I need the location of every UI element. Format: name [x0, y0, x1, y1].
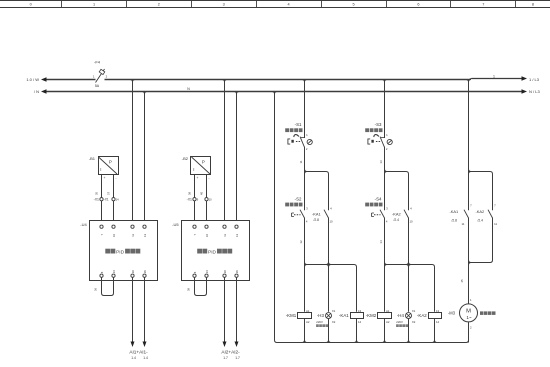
svg-text:24: 24 — [112, 270, 116, 273]
svg-text:-KA2: -KA2 — [476, 209, 485, 214]
svg-text:37: 37 — [107, 192, 111, 196]
svg-text:220V: 220V — [316, 320, 323, 324]
svg-text:A1: A1 — [306, 309, 310, 313]
svg-text:-B1: -B1 — [89, 156, 96, 161]
svg-text:1.0 / W: 1.0 / W — [26, 77, 39, 82]
svg-text:+: + — [197, 176, 199, 180]
svg-text:11: 11 — [131, 234, 135, 237]
svg-text:/2.8: /2.8 — [452, 218, 458, 222]
svg-text:-S1: -S1 — [295, 122, 302, 127]
svg-text:14: 14 — [436, 320, 440, 324]
svg-text:2: 2 — [158, 3, 160, 7]
svg-text:6: 6 — [417, 3, 419, 7]
svg-text:-H3: -H3 — [317, 313, 325, 318]
svg-text:P: P — [109, 160, 112, 165]
svg-text:A2: A2 — [306, 320, 310, 324]
svg-text:14: 14 — [358, 320, 362, 324]
svg-text:10: 10 — [112, 234, 116, 237]
svg-text:1.7: 1.7 — [223, 356, 228, 360]
svg-text:11: 11 — [494, 222, 497, 226]
svg-text:N / L3: N / L3 — [529, 89, 540, 94]
svg-text:1: 1 — [493, 74, 495, 78]
svg-text:-X1: -X1 — [104, 198, 109, 202]
svg-text:-KA1: -KA1 — [312, 212, 321, 217]
svg-text:8: 8 — [532, 3, 534, 7]
svg-text:-X1: -X1 — [94, 198, 99, 202]
svg-text:13: 13 — [358, 309, 362, 313]
svg-text:10: 10 — [410, 220, 414, 224]
svg-text:28: 28 — [223, 270, 227, 273]
svg-text:-: - — [116, 176, 117, 180]
svg-text:-F4: -F4 — [94, 60, 101, 65]
svg-text:/2.4: /2.4 — [478, 218, 484, 222]
svg-text:AI1+AI1-: AI1+AI1- — [129, 350, 148, 355]
svg-text:10: 10 — [330, 220, 334, 224]
svg-text:-KA2: -KA2 — [417, 313, 427, 318]
svg-text:38: 38 — [188, 192, 192, 196]
svg-text:24: 24 — [205, 270, 209, 273]
svg-text:26: 26 — [143, 270, 147, 273]
svg-text:28: 28 — [131, 270, 135, 273]
svg-text:-KA1: -KA1 — [339, 313, 349, 318]
svg-text:26: 26 — [235, 270, 239, 273]
svg-text:-H4: -H4 — [397, 313, 405, 318]
svg-text:P: P — [202, 160, 205, 165]
svg-text:-B2: -B2 — [182, 156, 189, 161]
svg-text:-S2: -S2 — [295, 196, 302, 201]
svg-text:X2: X2 — [332, 320, 336, 324]
svg-text:-KM1: -KM1 — [286, 313, 297, 318]
svg-text:-X1: -X1 — [187, 198, 192, 202]
svg-text:1: 1 — [93, 3, 95, 7]
svg-text:AI2+AI2-: AI2+AI2- — [221, 350, 240, 355]
svg-text:11: 11 — [462, 222, 465, 226]
svg-text:11: 11 — [299, 160, 303, 163]
svg-text:X1: X1 — [332, 309, 336, 313]
svg-text:-M3: -M3 — [448, 311, 456, 316]
svg-text:-: - — [209, 176, 210, 180]
svg-text:-KA1: -KA1 — [450, 209, 459, 214]
svg-text:I: I — [100, 167, 101, 172]
svg-text:10: 10 — [205, 234, 209, 237]
svg-text:/2.4: /2.4 — [394, 218, 400, 222]
svg-text:-S3: -S3 — [375, 122, 382, 127]
svg-text:220V: 220V — [396, 320, 403, 324]
svg-text:7: 7 — [482, 3, 484, 7]
svg-text:-KA2: -KA2 — [392, 212, 401, 217]
svg-text:13: 13 — [379, 160, 383, 164]
svg-text:/2.8: /2.8 — [314, 218, 320, 222]
svg-text:40: 40 — [200, 192, 204, 196]
svg-text:I: I — [193, 167, 194, 172]
svg-text:A1: A1 — [386, 309, 390, 313]
svg-text:3: 3 — [223, 3, 225, 7]
svg-text:1.4: 1.4 — [143, 356, 148, 360]
svg-text:13: 13 — [436, 309, 440, 313]
svg-text:/ N: / N — [34, 89, 39, 94]
svg-text:X2: X2 — [412, 320, 416, 324]
svg-text:1~: 1~ — [466, 315, 472, 320]
svg-text:39: 39 — [187, 288, 191, 292]
svg-text:5: 5 — [352, 3, 354, 7]
svg-text:-U4: -U4 — [80, 222, 87, 227]
svg-text:0: 0 — [30, 3, 32, 7]
svg-text:36: 36 — [94, 288, 98, 292]
svg-text:13: 13 — [143, 234, 147, 237]
svg-text:-KM2: -KM2 — [366, 313, 377, 318]
svg-text:-U5: -U5 — [172, 222, 179, 227]
svg-text:14: 14 — [379, 240, 383, 244]
svg-text:1.4: 1.4 — [131, 356, 136, 360]
svg-text:45: 45 — [460, 279, 464, 283]
svg-text:35: 35 — [95, 192, 99, 196]
svg-text:13: 13 — [235, 234, 239, 237]
svg-text:A2: A2 — [386, 320, 390, 324]
svg-text:M: M — [466, 309, 471, 315]
svg-text:1 / L3: 1 / L3 — [529, 77, 540, 82]
svg-text:5A: 5A — [95, 84, 100, 88]
svg-text:1.7: 1.7 — [235, 356, 240, 360]
svg-text:X1: X1 — [412, 309, 416, 313]
svg-text:11: 11 — [223, 234, 227, 237]
svg-text:-S4: -S4 — [375, 196, 382, 201]
svg-text:PID: PID — [116, 249, 125, 255]
svg-text:PID: PID — [208, 249, 217, 255]
svg-text:+: + — [104, 176, 106, 180]
svg-text:12: 12 — [299, 240, 303, 244]
svg-text:4: 4 — [288, 3, 290, 7]
